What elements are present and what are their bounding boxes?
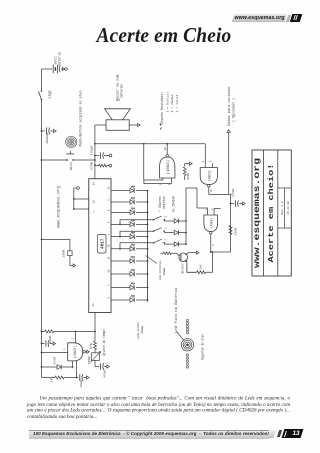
svg-text:3: 3 [212,244,215,246]
svg-text:Ajuste do tempo: Ajuste do tempo [102,329,106,356]
svg-text:2: 2 [165,227,168,229]
svg-text:2 = Media: 2 = Media [170,94,174,112]
svg-text:www.esquemas.org: www.esquemas.org [58,185,62,228]
svg-text:Led fixo na Bateria: Led fixo na Bateria [174,288,178,333]
svg-text:Rev. 1.0: Rev. 1.0 [281,201,284,214]
svg-text:(4093): (4093) [208,170,213,181]
svg-text:15: 15 [107,269,110,273]
svg-text:470K: 470K [232,188,235,196]
svg-text:RL#1: RL#1 [69,162,73,170]
svg-text:( Opcional ): ( Opcional ) [232,98,236,122]
svg-text:9: 9 [107,221,110,223]
svg-text:10mm: 10mm [140,326,144,334]
svg-text:220R: 220R [88,356,91,364]
svg-text:Bateria: Bateria [58,52,62,66]
svg-text:1K: 1K [200,264,203,269]
svg-text:1: 1 [165,239,168,241]
svg-text:Liga: Liga [47,91,52,99]
svg-text:15: 15 [93,200,96,204]
svg-text:15-12-08: 15-12-08 [287,201,290,214]
svg-text:13: 13 [93,182,96,186]
svg-text:Acerte em cheio!: Acerte em cheio! [268,164,276,263]
svg-text:Push-Button acoplado ao alvo: Push-Button acoplado ao alvo [79,90,83,146]
svg-text:1000uF: 1000uF [45,132,49,144]
svg-text:BC337: BC337 [182,263,185,273]
svg-text:interno: interno [120,84,124,98]
svg-text:4017: 4017 [100,238,105,249]
svg-text:1: 1 [63,348,66,350]
svg-text:10uF: 10uF [80,379,83,387]
svg-text:1K: 1K [50,378,53,383]
svg-text:2: 2 [71,338,74,340]
svg-text:47K: 47K [90,343,93,350]
svg-text:10: 10 [107,244,110,248]
svg-text:2: 2 [107,297,110,299]
svg-text:470uF: 470uF [104,369,107,378]
svg-text:Saida para contador: Saida para contador [227,86,231,126]
svg-text:10mm: 10mm [162,268,166,276]
svg-text:10: 10 [164,147,167,151]
svg-text:(4093): (4093) [73,345,77,358]
svg-text:470uF: 470uF [90,145,93,155]
svg-text:1: 1 [107,233,110,235]
svg-text:100K: 100K [49,335,52,343]
svg-text:8: 8 [202,160,205,162]
svg-text:7: 7 [107,284,110,286]
svg-text:1: 1 [93,211,96,213]
svg-text:220K: 220K [234,227,237,235]
svg-text:Sugestao de alvo: Sugestao de alvo [201,334,205,360]
svg-text:13: 13 [107,256,110,260]
svg-text:100K: 100K [62,249,65,257]
svg-text:470R: 470R [90,162,93,170]
svg-text:abertas: abertas [162,196,166,209]
svg-text:3x 1N4148: 3x 1N4148 [172,196,176,212]
svg-text:1 = Dificil: 1 = Dificil [166,91,170,112]
svg-text:10: 10 [210,189,213,192]
svg-text:www.esquemas.org: www.esquemas.org [254,158,262,268]
svg-text:5: 5 [107,199,110,201]
svg-text:14: 14 [92,303,95,307]
svg-text:10K: 10K [187,173,190,180]
svg-text:3 = Facil: 3 = Facil [175,94,179,112]
svg-text:2: 2 [211,208,214,210]
svg-text:6: 6 [107,209,110,211]
svg-text:3: 3 [165,216,168,218]
svg-text:9: 9 [209,160,212,162]
svg-text:11: 11 [107,186,110,190]
svg-text:4148: 4148 [53,357,56,365]
svg-text:(4093): (4093) [210,218,215,229]
svg-text:(4093): (4093) [166,160,171,175]
svg-text:* Chaves Hostadas:: * Chaves Hostadas: [160,91,164,128]
